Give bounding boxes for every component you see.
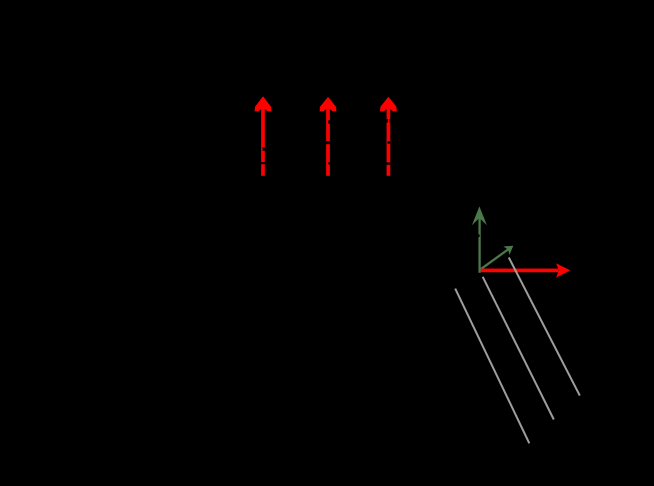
- red axis arrow x (horizontal): [481, 263, 571, 277]
- black notch marks crossing arrow F3 shaft: [387, 119, 391, 165]
- gray hatch line 1: [455, 289, 529, 444]
- red force arrow F1: [255, 96, 272, 176]
- red force arrow F2: [320, 97, 337, 176]
- green axis arrow n (vertical): [472, 206, 487, 272]
- black notch mark crossing green n shaft: [478, 234, 480, 237]
- black notch marks crossing arrow F2 shaft: [326, 120, 330, 164]
- gray hatch line 3: [509, 258, 580, 396]
- green axis arrow t (diagonal): [479, 246, 513, 271]
- gray hatch line 2: [483, 277, 554, 420]
- red force arrow F3: [380, 97, 397, 176]
- black notch marks crossing arrow F1 shaft: [261, 147, 265, 164]
